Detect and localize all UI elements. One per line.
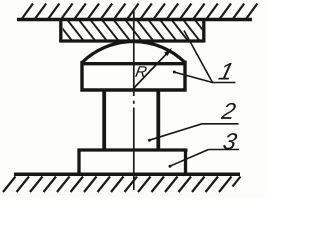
label 2 shelf [202, 123, 239, 125]
lower surface hatching [3, 177, 241, 193]
radius R line with arrow [132, 53, 168, 91]
spherical dome arc [82, 41, 185, 62]
plate, pos.1, outline [59, 20, 205, 42]
label 3 leader dot [169, 165, 172, 168]
callout label 1 [218, 63, 233, 80]
label 1 leader dot [173, 71, 176, 74]
callout label 2 [221, 103, 237, 119]
upper fixed surface line [17, 18, 252, 22]
column, pos.2 [104, 90, 158, 150]
R value label [135, 66, 147, 77]
base block, pos.3 [78, 149, 188, 175]
plate hatching [55, 19, 212, 42]
label 3 shelf [209, 149, 240, 151]
label 1 leader to head block [174, 72, 213, 83]
label 1 leader to plate [184, 31, 213, 83]
vertical centerline (dash-dot) [133, 11, 135, 190]
label 1 shelf [212, 82, 236, 84]
label 2 leader to column [149, 124, 202, 141]
callout label 3 [222, 133, 238, 149]
label 3 leader to base [170, 150, 209, 167]
upper surface hatching [22, 4, 257, 19]
head block, pos.1 [81, 61, 187, 92]
label 2 leader dot [148, 139, 151, 142]
lower fixed surface line [14, 173, 240, 177]
